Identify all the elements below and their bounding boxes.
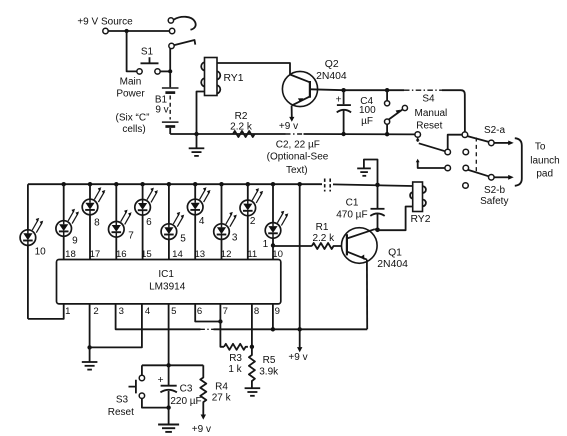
svg-text:+9 V Source: +9 V Source (77, 17, 133, 28)
junction dot S4 bottom (385, 132, 389, 136)
svg-text:220 µF: 220 µF (170, 396, 201, 407)
node +9 v (rail) (299, 329, 301, 347)
battery B1 (169, 74, 171, 88)
wire R1 from LED1 node (273, 244, 312, 247)
switch S2-b arm (468, 170, 489, 176)
wire pin1 to LED10 (28, 304, 64, 319)
svg-text:R2: R2 (235, 111, 248, 122)
svg-text:S2-b: S2-b (484, 185, 506, 196)
switch S1 pushbutton (141, 57, 159, 63)
svg-text:+9 v: +9 v (279, 121, 298, 132)
relay RY1 contact terminal bottom (169, 43, 174, 48)
terminal S2-a (489, 140, 495, 146)
svg-text:Q1: Q1 (388, 248, 402, 259)
wire S2-a to launch arrow (494, 142, 508, 144)
LED D2 (240, 188, 263, 216)
junction dots on bus (62, 182, 66, 186)
svg-text:8: 8 (94, 218, 100, 229)
svg-text:1: 1 (65, 306, 70, 317)
svg-text:C2, 22 µF: C2, 22 µF (276, 140, 320, 151)
relay coil RY2 (410, 182, 426, 212)
switch S4 (386, 90, 388, 100)
svg-text:S4: S4 (422, 94, 435, 105)
svg-text:C3: C3 (180, 384, 193, 395)
LED D6 (135, 188, 158, 216)
wire +9V source to relay contact (108, 30, 169, 32)
switch S2-a arm (467, 136, 488, 142)
svg-text:+9 v: +9 v (192, 424, 211, 435)
svg-text:11: 11 (247, 249, 257, 260)
svg-text:2: 2 (93, 306, 98, 317)
svg-text:To: To (535, 142, 546, 153)
LED D5 column (168, 184, 170, 259)
terminal spare H (463, 183, 469, 189)
wire B up to C (448, 135, 462, 150)
svg-text:(Optional-See: (Optional-See (267, 152, 329, 163)
wire pin5 down to C3 (168, 304, 170, 365)
svg-text:6: 6 (146, 217, 152, 228)
svg-text:(Six “C”: (Six “C” (116, 112, 150, 123)
junction dot at S1 branch (125, 29, 129, 33)
relay RY1 contact arm (curved) (174, 17, 196, 30)
LED D5 (161, 212, 184, 240)
svg-text:S1: S1 (141, 47, 154, 58)
wire Q1 collector to C1 node (375, 228, 378, 231)
terminal spare E (463, 149, 469, 155)
svg-text:3: 3 (119, 306, 124, 317)
svg-text:Main: Main (120, 76, 142, 87)
svg-text:Manual: Manual (414, 108, 447, 119)
svg-text:R1: R1 (316, 222, 329, 233)
wire +9V branch down to S1 (127, 31, 137, 71)
svg-text:9 v: 9 v (155, 105, 168, 116)
svg-text:+: + (336, 94, 342, 105)
LED D4 (187, 187, 210, 215)
svg-text:launch: launch (530, 156, 559, 167)
wire contact bottom to S1 node (169, 49, 171, 72)
resistor R5 (249, 347, 255, 388)
relay RY2 contact arm A-B (419, 143, 446, 151)
LED D7 (109, 210, 132, 238)
wire S1 to battery node (160, 70, 170, 72)
relay RY1 lower contact arm (174, 40, 195, 45)
wire S2-b to launch arrow (494, 176, 508, 178)
svg-text:IC1: IC1 (158, 269, 174, 280)
junction dot C4 top (341, 88, 345, 92)
LED D3 column (221, 184, 223, 259)
svg-text:100: 100 (359, 105, 376, 116)
svg-text:12: 12 (221, 249, 232, 260)
svg-text:7: 7 (223, 306, 228, 317)
junction dot S1/battery (168, 69, 172, 73)
LED D6 column (142, 184, 144, 259)
svg-text:R5: R5 (263, 355, 276, 366)
svg-text:Reset: Reset (108, 407, 134, 418)
svg-text:Power: Power (116, 88, 145, 99)
svg-text:3.9k: 3.9k (259, 366, 279, 377)
resistor R2 (233, 131, 255, 137)
LED D9 (56, 209, 79, 237)
resistor R1 (312, 243, 347, 249)
relay RY1 contact terminal middle (169, 28, 174, 33)
svg-text:9: 9 (275, 306, 280, 317)
LED D8 (82, 187, 105, 215)
svg-text:+9 v: +9 v (288, 352, 307, 363)
LED D10 column (27, 184, 29, 319)
terminal S2-b (489, 175, 495, 181)
svg-text:2: 2 (250, 216, 256, 227)
terminal +9V source (103, 28, 108, 33)
svg-text:RY1: RY1 (223, 73, 243, 84)
svg-text:17: 17 (90, 249, 101, 260)
svg-text:S3: S3 (116, 394, 129, 405)
bracket to launch pad (515, 138, 522, 186)
svg-text:R4: R4 (215, 381, 228, 392)
wire S3/C3 top (142, 364, 203, 366)
svg-text:RY2: RY2 (410, 214, 430, 225)
wire pin2 to ground (89, 304, 91, 348)
terminal B (445, 149, 451, 155)
junction dot C1 bottom (375, 228, 380, 233)
relay RY1 contact terminal top (168, 18, 173, 23)
svg-text:10: 10 (35, 247, 47, 258)
svg-text:S2-a: S2-a (484, 125, 506, 136)
LED D3 (214, 212, 237, 240)
terminal rail end (S2 common A) (415, 132, 421, 138)
IC U1 LM3914 (57, 260, 281, 304)
svg-text:LM3914: LM3914 (149, 282, 186, 293)
LED D9 column (63, 184, 65, 259)
LED D1 (265, 211, 288, 239)
arm arrow below A (417, 139, 419, 142)
svg-text:2.2 k: 2.2 k (230, 122, 253, 133)
transistor Q2 (282, 71, 317, 121)
junction dot C4 bottom (341, 132, 345, 136)
wire pin9 to rail (272, 304, 274, 329)
LED D1 column (272, 184, 274, 259)
capacitor C4 (343, 90, 345, 104)
svg-text:27 k: 27 k (212, 393, 232, 404)
terminal F (445, 165, 451, 171)
svg-text:5: 5 (180, 233, 186, 244)
svg-text:1: 1 (263, 239, 269, 250)
ground (C3) (168, 408, 170, 425)
junction dot C3 bottom (166, 405, 170, 409)
wire pin6 to pin7 (195, 304, 220, 322)
resistor R4 (200, 365, 206, 415)
ground (pin 2) (89, 347, 91, 361)
svg-text:+: + (157, 375, 163, 386)
svg-text:6: 6 (197, 306, 202, 317)
wire RY1 to Q2 collector (217, 63, 290, 75)
junction dot C3 top (166, 363, 170, 367)
resistor R3 (224, 344, 248, 350)
LED D4 column (194, 184, 196, 259)
terminal G (463, 165, 469, 171)
ground (small) (357, 168, 371, 175)
svg-text:13: 13 (194, 249, 205, 260)
svg-text:C1: C1 (346, 198, 359, 209)
gang dashed link S2 (475, 138, 477, 173)
transistor Q1 (342, 228, 378, 330)
ground (R5) (245, 388, 261, 396)
wire ground rail y=134 (170, 133, 285, 135)
LED D2 column (247, 184, 249, 259)
svg-text:Safety: Safety (480, 196, 508, 207)
junction dot +9v feed (298, 327, 302, 331)
svg-text:9: 9 (72, 235, 78, 246)
wire RY2 return to C1 node (378, 207, 413, 231)
wire pin4 to pin2 node (90, 304, 142, 348)
wire pin8 down (251, 304, 253, 347)
svg-text:4: 4 (199, 216, 205, 227)
ground (main) (196, 134, 198, 148)
capacitor C1 (377, 185, 379, 208)
wire RY1 coil return (197, 92, 205, 135)
svg-text:8: 8 (254, 306, 259, 317)
junction dot LED1 cathode / R1 (271, 243, 275, 247)
capacitor C2 (optional, dashed) (324, 179, 326, 192)
wire pin3 to +9v rail (116, 304, 201, 329)
svg-text:15: 15 (141, 249, 152, 260)
svg-text:470 µF: 470 µF (336, 210, 367, 221)
LED D10 (20, 218, 43, 246)
svg-text:10: 10 (272, 249, 283, 260)
svg-text:R3: R3 (229, 353, 242, 364)
svg-text:3: 3 (232, 233, 238, 244)
svg-text:16: 16 (116, 249, 127, 260)
svg-text:4: 4 (145, 306, 151, 317)
junction dot S4 top (385, 88, 389, 92)
arm arrow F left (416, 159, 420, 162)
terminal C (462, 132, 468, 138)
svg-text:cells): cells) (122, 124, 145, 135)
switch S3 (141, 365, 143, 375)
svg-text:2N404: 2N404 (377, 259, 408, 270)
svg-text:1 k: 1 k (228, 364, 242, 375)
ground hook (C1 top) (364, 160, 378, 185)
svg-text:Reset: Reset (416, 121, 442, 132)
relay coil RY1 (201, 58, 220, 96)
svg-text:14: 14 (172, 249, 183, 260)
wire LED anode bus (28, 183, 322, 185)
capacitor C3 (168, 365, 170, 385)
svg-text:Q2: Q2 (325, 59, 339, 70)
wire bus to +9v rail (299, 184, 301, 329)
junction dot bus/C1/ground (375, 183, 380, 188)
svg-text:5: 5 (171, 306, 176, 317)
svg-text:18: 18 (65, 249, 76, 260)
svg-text:2.2 k: 2.2 k (312, 233, 335, 244)
svg-text:7: 7 (128, 231, 134, 242)
svg-text:µF: µF (361, 116, 373, 127)
svg-text:Text): Text) (286, 165, 308, 176)
svg-text:2N404: 2N404 (316, 71, 347, 82)
junction dot battery/ground (194, 132, 198, 136)
LED D7 column (115, 184, 117, 259)
wire pin7 down (220, 304, 224, 347)
svg-text:pad: pad (536, 169, 553, 180)
wire Q2 base (310, 88, 404, 91)
LED D8 column (89, 184, 91, 259)
